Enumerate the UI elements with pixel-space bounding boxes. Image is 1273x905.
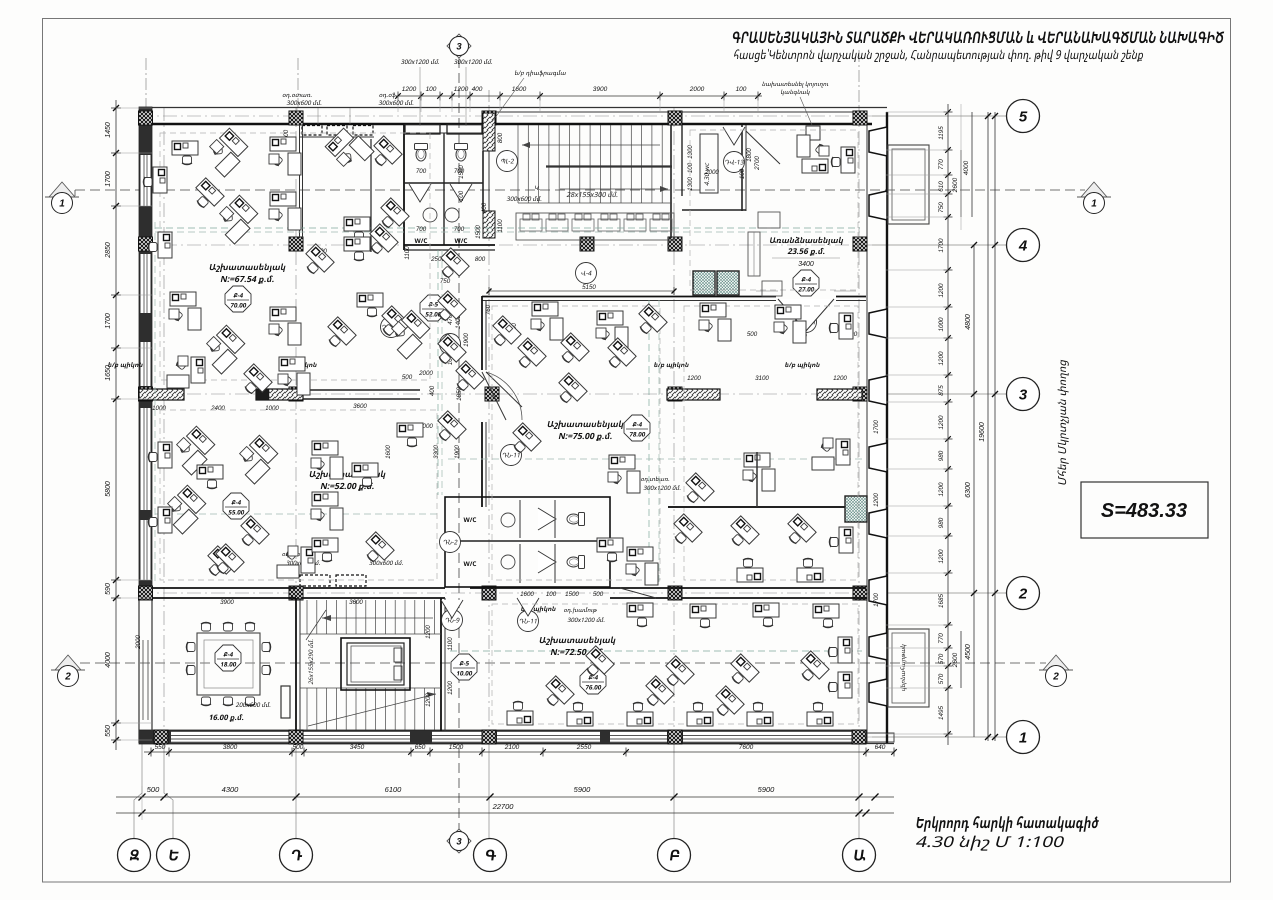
title line 2 xyxy=(733,49,1144,62)
teal cabinet reception 2 xyxy=(717,271,739,295)
svg-text:1200: 1200 xyxy=(425,625,432,639)
balcony lower right xyxy=(888,629,929,707)
ceiling dashed lines xyxy=(155,227,860,229)
note eb diaphragm xyxy=(514,70,566,76)
svg-text:1650: 1650 xyxy=(105,365,112,381)
right chain vertical rails xyxy=(960,104,962,230)
svg-text:1495: 1495 xyxy=(938,706,945,721)
svg-text:1100: 1100 xyxy=(497,219,504,233)
reception armchairs xyxy=(758,212,780,228)
door tag V-5 xyxy=(440,334,461,355)
room tag K-4 70.00 xyxy=(225,286,251,312)
svg-text:550: 550 xyxy=(155,744,166,751)
vent boxes top corridor xyxy=(302,126,322,136)
svg-text:4000: 4000 xyxy=(963,160,970,175)
svg-text:1200: 1200 xyxy=(938,415,945,430)
svg-text:2000: 2000 xyxy=(704,169,719,176)
note od otar top left xyxy=(282,94,312,99)
reception west wall xyxy=(741,125,743,211)
svg-text:1700: 1700 xyxy=(873,420,880,434)
section line 2-2 xyxy=(80,662,1046,664)
stair label 26x155x290 xyxy=(308,639,313,685)
svg-text:1700: 1700 xyxy=(105,313,112,329)
room label 72.50 xyxy=(539,637,616,646)
svg-text:1900: 1900 xyxy=(463,333,470,347)
svg-text:5: 5 xyxy=(1019,108,1028,125)
dim line 5150 under room75 wall xyxy=(489,290,674,292)
bottom wall windows xyxy=(171,732,289,742)
columns on axis 5 (top wall) xyxy=(139,111,153,125)
svg-text:100: 100 xyxy=(546,591,557,598)
svg-text:500: 500 xyxy=(747,331,758,338)
lower staircase treads upper flight xyxy=(306,600,308,634)
svg-text:700: 700 xyxy=(416,226,427,233)
lower staircase arrow upper xyxy=(322,617,433,619)
top wall xyxy=(139,107,866,109)
svg-text:1200: 1200 xyxy=(938,482,945,497)
lower toilet block xyxy=(445,497,610,587)
room tag K-4 78.00 xyxy=(624,415,650,441)
svg-text:2000: 2000 xyxy=(135,635,142,650)
svg-text:500: 500 xyxy=(293,744,304,751)
room tag K-4 18.00 xyxy=(215,645,241,671)
meeting room wall cabinet xyxy=(281,686,290,718)
door tag V-4 xyxy=(576,263,597,284)
workstation clusters xyxy=(202,127,251,176)
columns on axis 3 xyxy=(139,387,153,401)
door reception top xyxy=(746,131,780,164)
section marker 3 top xyxy=(447,34,471,58)
axis connector lines below building xyxy=(295,744,297,839)
svg-text:1100: 1100 xyxy=(447,637,454,651)
svg-text:4000: 4000 xyxy=(105,652,112,668)
svg-text:3800: 3800 xyxy=(223,744,238,751)
axis lines inside building - horizontal xyxy=(139,115,872,117)
room tag K-4 55.00 xyxy=(223,493,249,519)
svg-text:1500: 1500 xyxy=(565,591,579,598)
svg-text:1000: 1000 xyxy=(265,405,279,412)
svg-text:6300: 6300 xyxy=(965,482,972,498)
room label 67.54 xyxy=(209,264,286,273)
top toilet sinks xyxy=(423,208,437,222)
wall axis3 left segments with hatch xyxy=(139,389,184,400)
left dimension chain xyxy=(115,100,117,750)
svg-text:750: 750 xyxy=(440,278,451,285)
room tag K-4 76.00 xyxy=(580,668,606,694)
room dashed ceiling insets xyxy=(160,133,430,380)
svg-text:1800: 1800 xyxy=(746,148,753,162)
svg-text:100: 100 xyxy=(736,86,747,93)
corridor partition at D axis xyxy=(299,125,301,238)
svg-text:1600: 1600 xyxy=(385,445,392,459)
svg-text:1500: 1500 xyxy=(475,225,482,239)
svg-text:760: 760 xyxy=(485,304,492,315)
vent boxes lower xyxy=(300,575,330,586)
svg-text:5900: 5900 xyxy=(758,785,776,794)
room label reception xyxy=(769,237,843,245)
svg-text:1200: 1200 xyxy=(402,86,417,93)
svg-text:1700: 1700 xyxy=(873,593,880,607)
svg-text:5900: 5900 xyxy=(574,785,592,794)
svg-text:1450: 1450 xyxy=(105,122,112,138)
svg-text:1300: 1300 xyxy=(687,177,694,191)
grid circle bottom G xyxy=(474,839,507,872)
svg-text:1600: 1600 xyxy=(520,591,534,598)
door tag DV-13 xyxy=(724,152,745,173)
svg-text:400: 400 xyxy=(472,86,483,93)
svg-text:1000: 1000 xyxy=(152,405,166,412)
svg-text:550: 550 xyxy=(105,725,112,737)
title line 1 xyxy=(732,31,1225,43)
door lower right room xyxy=(517,598,539,616)
balcony upper right xyxy=(888,145,929,224)
door tag DV-12 xyxy=(381,317,402,338)
svg-text:1200: 1200 xyxy=(938,351,945,366)
header boxes above toilets xyxy=(405,125,440,135)
wc 4.30 room xyxy=(700,134,718,193)
svg-text:2100: 2100 xyxy=(504,744,520,751)
svg-text:6100: 6100 xyxy=(385,785,403,794)
axis connector lines right of building xyxy=(872,115,1007,117)
bench spine right-center room xyxy=(668,506,845,508)
note sewer riser xyxy=(762,81,829,87)
grid circle 5 xyxy=(1007,100,1040,133)
top toilet block xyxy=(403,125,405,250)
columns on axis 1 (bottom wall) xyxy=(154,730,168,744)
right chain extension lines xyxy=(886,111,948,113)
grid circle 3 xyxy=(1007,378,1040,411)
door tag DN-9 xyxy=(442,610,463,631)
reception dim line 3400 xyxy=(772,257,840,259)
room label 75.00 xyxy=(547,421,624,430)
section marker 1 left xyxy=(49,182,75,197)
svg-text:1000: 1000 xyxy=(938,317,945,332)
svg-text:1200: 1200 xyxy=(447,681,454,695)
note 300x1200 top pair xyxy=(401,59,440,64)
svg-text:770: 770 xyxy=(938,633,945,644)
teal cabinet reception 1 xyxy=(693,271,715,295)
lower toilet sinks xyxy=(501,513,515,527)
svg-text:3600: 3600 xyxy=(349,599,363,606)
section marker 2 left xyxy=(55,655,81,670)
svg-text:770: 770 xyxy=(938,159,945,170)
svg-text:2: 2 xyxy=(1052,672,1059,683)
axis lines inside building - vertical xyxy=(163,107,165,744)
svg-text:1200: 1200 xyxy=(454,86,469,93)
svg-text:1: 1 xyxy=(59,199,65,210)
svg-text:7600: 7600 xyxy=(739,744,754,751)
corridor bench column A xyxy=(370,139,372,252)
door tag DN-2 lower xyxy=(440,532,461,553)
svg-text:400: 400 xyxy=(429,385,436,396)
room tag K-5 10.00 xyxy=(451,654,477,680)
svg-text:3450: 3450 xyxy=(350,744,365,751)
top dimension chain xyxy=(396,95,762,97)
door tag DN-11 mid xyxy=(501,445,522,466)
svg-text:980: 980 xyxy=(938,517,945,528)
area box S=483.33 xyxy=(1081,482,1208,538)
svg-text:5150: 5150 xyxy=(582,284,596,291)
svg-text:570: 570 xyxy=(938,653,945,664)
svg-text:2000: 2000 xyxy=(689,86,705,93)
svg-text:1195: 1195 xyxy=(938,126,945,140)
section line 1-1 xyxy=(75,189,1085,191)
svg-text:1300: 1300 xyxy=(687,145,694,159)
room tag K-4 27.00 xyxy=(793,270,819,296)
right wall xyxy=(866,112,868,743)
top toilets xyxy=(415,144,428,162)
svg-text:640: 640 xyxy=(875,744,886,751)
door DV-11 arc xyxy=(778,299,834,331)
stair label 28x155x300 xyxy=(567,192,619,197)
svg-text:700: 700 xyxy=(416,168,427,175)
left chain extension lines to wall xyxy=(116,107,152,109)
svg-text:5800: 5800 xyxy=(105,481,112,497)
top staircase treads xyxy=(517,125,519,203)
lower stair block walls xyxy=(295,598,297,731)
svg-text:750: 750 xyxy=(938,202,945,213)
svg-text:3100: 3100 xyxy=(755,375,769,382)
WC labels xyxy=(415,238,428,243)
door to room 75 xyxy=(482,372,506,420)
svg-text:1200: 1200 xyxy=(873,493,880,507)
door DN-9 xyxy=(441,600,463,618)
svg-text:3: 3 xyxy=(1019,386,1028,403)
svg-text:1685: 1685 xyxy=(938,594,945,609)
room label 52.00 xyxy=(309,471,386,480)
note od teatr lower xyxy=(282,551,313,557)
grid circle bottom E xyxy=(157,839,190,872)
stair room desk counter xyxy=(516,213,674,240)
note eb pikon bottom xyxy=(521,606,556,612)
section line 3-3 xyxy=(458,58,460,832)
grid circle 1 xyxy=(1007,721,1040,754)
caption line 2 xyxy=(914,836,1065,851)
svg-text:800: 800 xyxy=(497,132,504,143)
svg-text:2700: 2700 xyxy=(754,156,761,171)
svg-text:400: 400 xyxy=(481,202,488,213)
lower staircase treads lower flight xyxy=(306,688,308,730)
svg-text:590: 590 xyxy=(105,583,112,595)
svg-text:1200: 1200 xyxy=(938,283,945,298)
notes eb pikon row xyxy=(108,362,143,368)
axis extension lines above building xyxy=(145,58,147,107)
grid circle bottom D xyxy=(280,839,313,872)
svg-text:100: 100 xyxy=(426,86,437,93)
right dimension chain small xyxy=(947,104,949,745)
left wall windows xyxy=(141,155,151,206)
room75 west wall with door opening xyxy=(481,296,483,370)
svg-text:3400: 3400 xyxy=(798,261,814,268)
stair left pier hatched xyxy=(483,113,495,151)
svg-text:S=483.33: S=483.33 xyxy=(1101,500,1187,522)
section marker 2 right xyxy=(1043,655,1069,670)
svg-text:1700: 1700 xyxy=(105,171,112,187)
section marker 1 right xyxy=(1081,182,1107,197)
svg-text:22700: 22700 xyxy=(492,802,515,811)
top staircase handrail xyxy=(546,165,672,167)
svg-text:3: 3 xyxy=(456,836,462,847)
svg-text:1900: 1900 xyxy=(454,445,461,459)
svg-text:3300: 3300 xyxy=(433,445,440,459)
svg-text:610: 610 xyxy=(938,181,945,192)
svg-text:1500: 1500 xyxy=(449,744,464,751)
wall axis2 band xyxy=(152,587,296,589)
door lower left flat xyxy=(620,588,656,598)
svg-text:2850: 2850 xyxy=(105,242,112,259)
svg-text:4300: 4300 xyxy=(222,785,240,794)
svg-text:800: 800 xyxy=(475,256,486,263)
caption line 1 xyxy=(915,816,1099,832)
svg-text:1700: 1700 xyxy=(938,238,945,253)
svg-text:1100: 1100 xyxy=(404,246,411,260)
stair right wall xyxy=(670,125,672,238)
svg-text:3900: 3900 xyxy=(593,86,608,93)
svg-text:1200: 1200 xyxy=(833,375,847,382)
svg-text:1200: 1200 xyxy=(938,549,945,564)
meeting room labels xyxy=(236,702,272,707)
svg-text:19600: 19600 xyxy=(979,422,986,442)
note od tear right room xyxy=(641,476,670,482)
room tag K-5 52.00 xyxy=(420,295,446,321)
bottom total chain xyxy=(116,812,894,814)
svg-text:2550: 2550 xyxy=(576,744,592,751)
top staircase arrows xyxy=(522,144,660,146)
left wall xyxy=(139,107,152,598)
svg-text:2: 2 xyxy=(1018,585,1028,602)
svg-text:4500: 4500 xyxy=(965,644,972,660)
svg-text:1: 1 xyxy=(1019,729,1027,746)
svg-text:1200: 1200 xyxy=(687,375,701,382)
lower staircase cut line xyxy=(308,694,436,726)
svg-text:3600: 3600 xyxy=(353,403,367,410)
svg-text:100: 100 xyxy=(458,190,465,201)
wall axis3 right hatched segments xyxy=(667,389,720,400)
svg-text:500: 500 xyxy=(147,785,160,794)
door tag PL-2 xyxy=(497,151,518,172)
svg-text:2000: 2000 xyxy=(418,370,433,377)
door tag DV-11 xyxy=(796,312,817,333)
svg-text:3: 3 xyxy=(456,41,462,52)
room75 top wall xyxy=(482,296,776,298)
svg-text:1: 1 xyxy=(1091,199,1097,210)
svg-text:650: 650 xyxy=(415,744,426,751)
lower toilets xyxy=(567,513,585,526)
svg-text:2400: 2400 xyxy=(210,405,225,412)
meeting room table xyxy=(197,633,260,695)
note od hamut xyxy=(563,607,597,613)
bottom small chain xyxy=(144,751,894,753)
svg-text:2600: 2600 xyxy=(952,177,959,193)
section marker 3 bottom xyxy=(447,829,471,853)
svg-text:4800: 4800 xyxy=(965,314,972,330)
right wall window bays xyxy=(869,127,887,156)
elevator shaft xyxy=(341,638,410,690)
columns on axis 4 xyxy=(139,237,153,251)
door tag DN-11 lower xyxy=(518,611,539,632)
note od of top xyxy=(379,93,398,99)
grid circle bottom A xyxy=(843,839,876,872)
grid circle 4 xyxy=(1007,229,1040,262)
note K 300x600 xyxy=(534,186,540,190)
svg-text:700: 700 xyxy=(454,226,465,233)
bottom wall xyxy=(139,730,866,744)
svg-text:980: 980 xyxy=(938,450,945,461)
svg-text:1200: 1200 xyxy=(425,693,432,707)
svg-text:1500: 1500 xyxy=(458,165,465,179)
svg-text:570: 570 xyxy=(938,673,945,684)
svg-text:500: 500 xyxy=(593,591,604,598)
balcony lower label xyxy=(900,644,906,691)
teal cabinet right wall xyxy=(845,496,867,522)
svg-text:100: 100 xyxy=(687,162,694,173)
grid circle 2 xyxy=(1007,577,1040,610)
svg-text:2600: 2600 xyxy=(952,652,959,668)
columns on axis 2 xyxy=(139,586,153,600)
street name vertical xyxy=(1058,359,1069,485)
right chain totals xyxy=(960,150,962,217)
grid circle bottom Z xyxy=(118,839,151,872)
top chain risers xyxy=(397,96,399,112)
svg-text:875: 875 xyxy=(938,385,945,396)
grid circle bottom B xyxy=(658,839,691,872)
bottom main chain xyxy=(116,796,894,798)
svg-text:100: 100 xyxy=(739,168,746,179)
svg-text:4: 4 xyxy=(1018,237,1028,254)
svg-text:2: 2 xyxy=(64,672,71,683)
svg-text:3900: 3900 xyxy=(220,599,234,606)
